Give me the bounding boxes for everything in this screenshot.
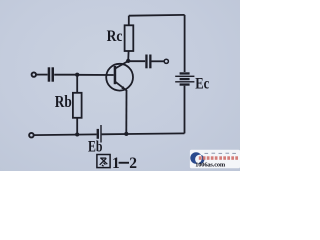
wire: capacitor to base node xyxy=(54,74,77,76)
transistor Q1 base bar xyxy=(114,66,117,84)
transistor Q1 emitter arrowhead xyxy=(121,86,125,90)
svg-text:Rb: Rb xyxy=(55,92,72,111)
transistor Q1 collector stroke xyxy=(115,61,128,68)
node: collector junction (dot) xyxy=(126,59,130,63)
node: Rb to bottom rail (dot) xyxy=(75,132,79,136)
transistor Q1 (NPN) body circle xyxy=(106,64,133,91)
wire: top rail xyxy=(129,14,185,17)
output terminal (open circle) xyxy=(164,59,168,63)
node: base bias junction (dot) xyxy=(75,73,79,77)
capacitor C2 (output coupling) xyxy=(145,55,151,69)
wire: right drop from top rail to battery Ec xyxy=(184,15,186,72)
wire: Rc top lead from top rail xyxy=(128,16,130,26)
wire: Rb top lead xyxy=(76,75,78,93)
caption: long dash xyxy=(119,162,129,164)
watermark logo crescent xyxy=(190,152,204,164)
watermark tiny grey marks xyxy=(205,153,236,154)
watermark red text row xyxy=(199,156,238,160)
caption: character 图 (drawn) xyxy=(97,155,110,168)
capacitor C1 (input coupling) xyxy=(48,67,54,81)
wire: bottom rail (right of battery Eb) xyxy=(102,132,185,135)
wire: emitter down to bottom rail xyxy=(125,90,127,134)
wire: input terminal to coupling capacitor xyxy=(36,74,47,76)
resistor Rc (body) xyxy=(125,25,134,51)
battery Ec (multi-cell) xyxy=(175,72,194,85)
svg-text:2: 2 xyxy=(129,155,137,171)
svg-text:1006as.com: 1006as.com xyxy=(195,162,226,169)
wire: collector node to output capacitor xyxy=(128,60,145,62)
transistor Q1 emitter stroke xyxy=(115,82,126,91)
resistor Rb (body) xyxy=(73,93,82,118)
wire: capacitor to output terminal xyxy=(152,60,165,62)
watermark box xyxy=(190,150,240,169)
wire: battery Ec to bottom rail xyxy=(184,86,186,134)
wire: bottom rail (left of battery Eb) xyxy=(34,133,97,136)
input terminal (top-left, signal in) xyxy=(32,72,36,76)
svg-text:Eb: Eb xyxy=(88,139,103,156)
wire: Rc bottom lead xyxy=(127,51,129,61)
wire: base node to transistor base xyxy=(77,74,114,76)
ground/common terminal (bottom-left, open circle) xyxy=(29,133,34,138)
svg-text:1: 1 xyxy=(112,155,120,171)
battery Eb (single cell) xyxy=(97,125,102,143)
wire: Rb bottom lead xyxy=(76,118,78,135)
svg-text:Ec: Ec xyxy=(195,76,209,93)
node: emitter junction on bottom rail (dot) xyxy=(124,132,128,136)
svg-text:Rc: Rc xyxy=(107,28,123,45)
